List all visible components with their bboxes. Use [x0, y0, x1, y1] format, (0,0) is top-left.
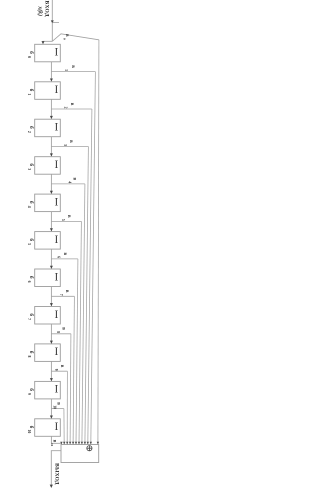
- wire: tap 7 vertical bus line: [73, 296, 74, 444]
- arrowhead into box 2: [50, 79, 53, 82]
- arrowhead into box 11: [50, 416, 53, 419]
- label b2 left of box: [27, 89, 35, 96]
- label b4 left of box: [27, 163, 35, 170]
- delay element T9: [35, 344, 61, 362]
- svg-text:1: 1: [64, 69, 68, 71]
- summation symbol circled plus: [87, 446, 92, 451]
- arrowhead into box 10: [50, 378, 53, 381]
- svg-text:в: в: [64, 34, 69, 37]
- svg-text:8: 8: [56, 331, 60, 333]
- svg-text:б: б: [28, 126, 35, 129]
- svg-text:в: в: [68, 140, 73, 143]
- wire: tap 8 horizontal: [51, 333, 71, 335]
- arrowhead into box 5: [50, 191, 53, 194]
- svg-text:I: I: [54, 308, 58, 321]
- wire: tap 8 vertical bus line: [69, 334, 72, 445]
- wire: connector box 7 to box 8: [50, 287, 52, 307]
- summing unit box: [61, 445, 99, 463]
- wire: tap 1 vertical bus line: [91, 72, 96, 445]
- svg-text:в: в: [66, 215, 71, 218]
- wire: tap 4 vertical bus line: [82, 184, 85, 445]
- svg-text:1: 1: [27, 93, 31, 95]
- delay element T4: [35, 157, 61, 175]
- wire: tap 9 vertical bus line: [66, 371, 68, 444]
- svg-text:в: в: [71, 178, 76, 181]
- label b1 tap coefficient: [64, 65, 75, 71]
- arrowhead into box 7: [50, 266, 53, 269]
- svg-text:10: 10: [27, 430, 31, 434]
- wire: tap 2 horizontal: [51, 108, 92, 110]
- arrowheads of taps entering adder: [60, 442, 99, 445]
- wire: tap 2 vertical bus line: [88, 109, 92, 445]
- svg-text:в: в: [69, 103, 74, 106]
- svg-text:0: 0: [62, 38, 66, 40]
- svg-text:0: 0: [27, 56, 31, 58]
- svg-text:5: 5: [27, 243, 31, 245]
- label b0: [62, 34, 69, 40]
- wire: tap 3 horizontal: [51, 146, 88, 148]
- svg-text:7: 7: [59, 294, 63, 296]
- label b6 left of box: [27, 238, 35, 245]
- wire: connector box 10 to box 11: [50, 399, 52, 419]
- arrowhead into box 6: [50, 228, 53, 231]
- svg-text:I: I: [54, 158, 58, 171]
- svg-text:б: б: [28, 238, 35, 241]
- svg-text:5: 5: [61, 219, 65, 221]
- arrowhead into box 8: [50, 303, 53, 306]
- wire: tap 6 vertical bus line: [76, 259, 78, 445]
- svg-text:I: I: [54, 83, 58, 96]
- svg-text:б: б: [28, 388, 35, 391]
- svg-text:9: 9: [54, 369, 58, 371]
- svg-text:10: 10: [53, 405, 57, 409]
- svg-text:I: I: [54, 121, 58, 134]
- arrowhead into box 4: [50, 153, 53, 156]
- delay element T11: [35, 419, 61, 437]
- svg-text:2: 2: [27, 131, 31, 133]
- svg-text:I: I: [54, 420, 58, 433]
- label b2 tap coefficient: [64, 103, 75, 109]
- label b9 left of box: [27, 351, 35, 358]
- wire: tap 7 horizontal: [51, 295, 74, 297]
- arrowhead into box T1: [42, 41, 45, 44]
- label b7 tap coefficient: [59, 290, 69, 296]
- svg-text:в: в: [70, 65, 75, 68]
- svg-text:I: I: [54, 345, 58, 358]
- label b3 tap coefficient: [63, 140, 73, 146]
- wire: connector box 9 to box 10: [50, 361, 52, 381]
- label b5 left of box: [27, 201, 35, 208]
- label b8 left of box: [27, 313, 35, 320]
- arrowhead into box 9: [50, 341, 53, 344]
- label b4 tap coefficient: [67, 178, 76, 184]
- svg-text:3: 3: [27, 168, 31, 170]
- svg-text:б: б: [28, 426, 35, 429]
- label b9 tap coefficient: [54, 365, 64, 371]
- input label BXOD x(k): [36, 1, 49, 18]
- svg-text:ВХОД: ВХОД: [43, 1, 49, 18]
- label b3 left of box: [27, 126, 35, 133]
- wire: tap 9 horizontal: [51, 370, 67, 372]
- delay element T8: [35, 307, 61, 325]
- label b10 left of box: [27, 388, 35, 395]
- svg-text:б: б: [28, 163, 35, 166]
- wire: connector box 6 to box 7: [50, 249, 52, 269]
- wire: connector box 5 to box 6: [50, 212, 52, 232]
- wire: connector box 3 to box 4: [50, 137, 52, 157]
- wire: tap 10 horizontal: [51, 408, 64, 410]
- svg-text:б: б: [28, 51, 35, 54]
- delay element T3: [35, 119, 61, 137]
- label b5 tap coefficient: [61, 215, 71, 221]
- delay element T2: [35, 82, 61, 100]
- svg-text:б: б: [28, 89, 35, 92]
- svg-text:в: в: [61, 327, 66, 330]
- delay element T5: [35, 194, 61, 212]
- arrowhead on input wire: [51, 20, 59, 23]
- label b7 left of box: [27, 276, 35, 283]
- svg-text:в: в: [59, 365, 64, 368]
- wire: connector box 1 to box 2: [50, 62, 52, 82]
- svg-text:б: б: [28, 276, 35, 279]
- label b11: [50, 440, 57, 447]
- wire: tap 3 vertical bus line: [85, 147, 89, 445]
- svg-text:I: I: [54, 195, 58, 208]
- svg-text:2: 2: [64, 107, 68, 109]
- wire: connector box 4 to box 5: [50, 174, 52, 194]
- svg-text:6: 6: [57, 256, 61, 258]
- svg-text:4: 4: [27, 206, 31, 208]
- wire: tap 5 vertical bus line: [79, 221, 81, 444]
- svg-text:в: в: [64, 290, 69, 293]
- wire: tap 0 vertical bus line: [98, 40, 99, 445]
- wire: connector box 8 to box 9: [50, 324, 52, 344]
- wire: input vertical: [51, 0, 53, 41]
- delay element T6: [35, 232, 61, 250]
- svg-text:б: б: [28, 313, 35, 316]
- wire: tap 6 horizontal: [51, 258, 78, 260]
- svg-text:I: I: [54, 270, 58, 283]
- svg-text:ВЫХОД: ВЫХОД: [54, 463, 60, 485]
- svg-text:8: 8: [27, 356, 31, 358]
- delay element T1: [35, 44, 61, 62]
- wire: connector box 2 to box 3: [50, 99, 52, 119]
- svg-text:6: 6: [27, 281, 31, 283]
- arrowhead output: [50, 485, 53, 488]
- label b10 tap coefficient: [53, 402, 61, 409]
- wire: tap 10 vertical bus line: [63, 409, 65, 445]
- svg-text:3: 3: [63, 144, 67, 146]
- wire: tap 5 horizontal: [51, 220, 81, 222]
- svg-text:11: 11: [50, 443, 54, 447]
- delay element T10: [35, 381, 61, 399]
- svg-text:в: в: [62, 253, 67, 256]
- label b11 left of box: [27, 426, 35, 434]
- svg-text:I: I: [54, 46, 58, 59]
- wire: output of adder: [51, 451, 61, 486]
- label b6 tap coefficient: [57, 253, 67, 259]
- arrowhead into box 3: [50, 116, 53, 119]
- svg-text:x(k): x(k): [36, 5, 43, 16]
- svg-text:4: 4: [67, 181, 71, 183]
- svg-text:I: I: [54, 383, 58, 396]
- svg-text:б: б: [28, 201, 35, 204]
- node: input tap junction: [52, 34, 99, 42]
- wire: tap 1 horizontal: [51, 71, 95, 73]
- svg-text:7: 7: [27, 318, 31, 320]
- svg-text:б: б: [28, 351, 35, 354]
- svg-text:9: 9: [27, 393, 31, 395]
- delay element T7: [35, 269, 61, 287]
- wire: box T11 output to adder: [51, 436, 61, 444]
- label b1 left of box: [27, 51, 35, 58]
- svg-text:I: I: [54, 233, 58, 246]
- wire: tap 4 horizontal: [51, 183, 85, 185]
- label b8 tap coefficient: [56, 327, 66, 333]
- wire: jog into first delay box: [43, 41, 52, 42]
